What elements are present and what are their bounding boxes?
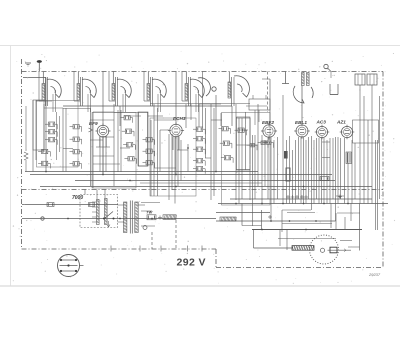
wire v33 [220, 113, 222, 126]
wire e1 [56, 112, 58, 160]
stage2 group box [92, 113, 136, 189]
chassis border bottom-left [22, 248, 217, 250]
wire v11 [113, 104, 115, 186]
wire v17 [153, 104, 155, 196]
junction J5 [215, 171, 217, 173]
wire h34 [337, 212, 360, 214]
wire y248 to coil [254, 247, 293, 249]
wire h29 [282, 209, 311, 211]
junction J19 [175, 186, 177, 188]
wire 261 down [261, 210, 263, 230]
stage4 group box [222, 113, 271, 206]
tuning coil L2 [77, 84, 80, 101]
mains wire upper y204 [22, 204, 118, 206]
capacitor C8 [73, 150, 79, 154]
junction J15 [119, 218, 121, 220]
mains switch [104, 212, 113, 220]
grid drop EBF2 [269, 79, 271, 125]
wire v75 [363, 96, 365, 204]
eye coil bar 2 [307, 73, 310, 86]
HT bus y203 [218, 203, 388, 205]
svg-text:AZ1: AZ1 [336, 120, 346, 125]
wire h14 [154, 119, 176, 121]
wire v60 [316, 138, 318, 199]
coupling wire a4 [143, 72, 145, 102]
capacitor C18 [197, 137, 203, 141]
oscillator coil [228, 82, 231, 98]
tube wire t11 [178, 137, 180, 150]
wire v72 [351, 140, 353, 204]
selector drop 3 [104, 190, 106, 199]
wire v71 [347, 152, 349, 204]
wire v61 [318, 138, 320, 204]
stage2 web h1 [93, 155, 114, 157]
PSU bus y229 [252, 229, 362, 231]
IF can drops [254, 110, 256, 125]
resistor R13 [128, 157, 134, 161]
chassis border bottom-right [216, 267, 383, 269]
grid drop ECH3 [175, 72, 177, 125]
wire h1 [36, 100, 52, 102]
junction J17 [151, 218, 153, 220]
junction J7 [261, 203, 263, 205]
resistor R19 [197, 147, 203, 151]
wire h3 [63, 108, 90, 110]
tube wire t10 [172, 137, 174, 150]
resistor R1 [49, 122, 55, 126]
tuning capacitor fan CV3 [117, 79, 131, 97]
wire h15 [148, 115, 163, 117]
scan speckle noise [13, 51, 395, 284]
wire v59 [313, 140, 315, 204]
PSU wire y205 [141, 202, 160, 204]
bus y171 [25, 171, 258, 173]
selector taps [92, 201, 97, 203]
wire v38 [249, 118, 251, 200]
wire v62 [321, 138, 323, 204]
PT top leads [118, 204, 125, 206]
series R bar 2 [220, 217, 236, 221]
wire h26 [262, 140, 268, 142]
stator wires b1 [52, 94, 54, 112]
wire v7 [92, 112, 94, 188]
wire v37 [245, 112, 247, 170]
svg-text:29237: 29237 [368, 272, 381, 277]
junction J18 [303, 186, 305, 188]
tube base circle [58, 255, 80, 277]
electrolytic blob2 [286, 168, 290, 181]
wire v31 [210, 104, 212, 200]
coupling wire a2 [73, 72, 75, 102]
mains link vert [64, 205, 66, 219]
wire v76 [367, 120, 369, 204]
resistor R25 [238, 128, 244, 132]
border tick k5 [201, 246, 203, 252]
capacitor C24 [224, 156, 230, 160]
IF can 1 [33, 100, 44, 150]
wire v44 [267, 137, 269, 199]
left margin wire [25, 106, 27, 151]
junction J10 [323, 203, 325, 205]
tube wire t3 [45, 78, 47, 172]
svg-text:EBF2: EBF2 [262, 120, 274, 125]
wire v51 [292, 150, 294, 204]
wire v10 [105, 136, 107, 172]
resistor R11 [125, 129, 131, 133]
speaker cone dotted [310, 235, 339, 264]
selector resistor 2 [105, 199, 108, 225]
wire v36 [241, 118, 243, 199]
elbow under EBF2 [311, 204, 313, 211]
wire v16 [150, 120, 152, 196]
output area wire [350, 204, 352, 222]
svg-text:292 V: 292 V [177, 257, 206, 269]
selector drop 2 [96, 190, 98, 200]
bus y186 [40, 186, 372, 188]
base pin line 2 [60, 265, 78, 267]
bus y199 [230, 198, 372, 200]
wire h16 [160, 129, 169, 131]
junction J9 [303, 203, 305, 205]
wire v69 [340, 138, 342, 199]
junction J2 [102, 174, 104, 176]
heater dash-dot bus [22, 189, 384, 191]
output transformer box [353, 120, 379, 143]
PT primary [124, 202, 127, 233]
coupling wire a5 [181, 72, 183, 102]
junction J16 [67, 218, 69, 220]
junction J4 [175, 174, 177, 176]
chassis border left [21, 59, 23, 249]
stage3 group box [150, 118, 196, 196]
tuning coil L3 [112, 84, 115, 101]
speaker voice coil [330, 247, 337, 253]
wire v45 [270, 137, 272, 221]
svg-text:AC3: AC3 [316, 120, 327, 125]
wire v48 [282, 95, 284, 204]
wire h8 [101, 136, 114, 138]
wire h31 [322, 141, 330, 143]
tube AZ1 [341, 126, 352, 137]
wire v65 [329, 138, 331, 204]
PT core [129, 201, 131, 234]
wire v64 [326, 140, 328, 204]
bus y183 [140, 182, 262, 184]
trimmer circle [212, 87, 216, 91]
junction J8 [282, 203, 284, 205]
wire h11 [120, 147, 130, 149]
capacitor C12 [127, 143, 133, 147]
tube wire t1 [102, 137, 104, 175]
tick T8 [158, 217, 162, 219]
wire v34 [235, 104, 237, 200]
zigzag left [24, 152, 28, 160]
junction J3 [129, 180, 131, 182]
capacitor C16 [146, 161, 152, 165]
electrolytic blob [284, 151, 288, 159]
wire v56 [305, 140, 307, 204]
coupling wire a1 [38, 72, 40, 102]
capacitor C6 [73, 125, 79, 129]
wire v50 [289, 136, 291, 204]
junction J6 [235, 203, 237, 205]
PSU dashed drop 1 [151, 232, 153, 249]
resistor R3 [49, 138, 55, 142]
tuning coil L1 [42, 84, 45, 101]
wire h23 [236, 144, 258, 146]
wire h30 [287, 212, 315, 214]
oscillator fan [234, 76, 249, 97]
resistor R23 [223, 141, 229, 145]
wire v81 [330, 204, 332, 229]
wire v18 [157, 108, 159, 196]
wire h9 [114, 112, 138, 114]
wire h2 [44, 107, 63, 109]
wire h32 [322, 157, 330, 159]
wire v12 [117, 110, 119, 172]
border tick k4 [187, 246, 189, 252]
wire v39 [252, 135, 254, 226]
tube wire t2 [175, 137, 177, 175]
svg-text:7000: 7000 [72, 195, 83, 201]
tube wire t8 [99, 136, 101, 147]
junction J22 [261, 229, 263, 231]
shield dashed vertical [267, 72, 269, 113]
tube wire t7 [268, 137, 270, 140]
ground terminal [25, 62, 31, 64]
wire v19 [159, 130, 161, 172]
tuning capacitor fan CV4 [152, 79, 166, 97]
phono terminal circle [324, 64, 328, 68]
wire v66 [332, 138, 334, 199]
tick T5 [304, 196, 308, 198]
wire v67 [335, 137, 337, 221]
capacitor C22 [222, 127, 228, 131]
wire h17 [177, 149, 188, 151]
wire v42 [261, 135, 263, 204]
wire y223 [282, 223, 332, 225]
band switch stub [284, 72, 286, 84]
bus y180 [75, 180, 335, 182]
tuning capacitor fan CV5 [190, 79, 204, 97]
tuning coil L5 [185, 84, 188, 101]
wire v3 [43, 104, 45, 152]
wire h24 [236, 169, 250, 171]
junction J23 [305, 229, 307, 231]
wire h20 [205, 157, 211, 159]
osc verticals [231, 77, 233, 106]
dial lamp [143, 226, 147, 230]
capacitor C10 [124, 116, 130, 120]
junction J1 [45, 171, 47, 173]
spk right vertical [359, 204, 361, 251]
wire h12 [138, 112, 148, 114]
tube wire t6 [231, 106, 233, 126]
tuning capacitor fan CV2 [82, 79, 96, 97]
stator wires b3 [122, 94, 124, 112]
wire v49 [286, 140, 288, 204]
wire v2 [35, 100, 37, 160]
chassis border right [382, 72, 384, 268]
bus y174 [30, 174, 332, 176]
junction J12 [270, 220, 272, 222]
stage3 web h1 [154, 167, 176, 169]
stage2 web h2 [93, 163, 120, 165]
base pin line 3 [60, 270, 77, 272]
wire v35 [238, 118, 240, 204]
voltage selector dotted box [80, 195, 118, 228]
switch arrow [108, 221, 110, 227]
resistor R7 [73, 137, 79, 141]
eye fan arc [293, 86, 304, 103]
wire v26 [190, 104, 192, 120]
IF can 3 [237, 117, 251, 170]
wire h27 [262, 78, 270, 80]
capacitor C14 [146, 138, 152, 142]
bus y221 [216, 220, 336, 222]
wire h25 [240, 129, 248, 131]
stage1 group box [37, 101, 79, 168]
tick T2 [291, 196, 295, 198]
wire v8 [99, 136, 101, 172]
resistor R27 [267, 141, 272, 144]
wire v52 [295, 140, 297, 204]
resistor R15 [146, 149, 152, 153]
selector resistor 1 [97, 200, 100, 225]
tube wire t9 [105, 136, 107, 147]
wire v68 [337, 137, 339, 204]
wire v57 [308, 137, 310, 199]
chassis border step [215, 249, 217, 268]
tube ECH3 [170, 124, 182, 136]
junction J11 [347, 203, 349, 205]
wire v24 [180, 140, 182, 181]
wire h6 [96, 146, 110, 148]
page left edge [10, 46, 12, 287]
PSU dashed drop 2 [175, 220, 177, 249]
grid bus y106 [63, 105, 232, 107]
wire h13 [138, 165, 148, 167]
wire v9 [102, 137, 104, 175]
wire 287 down [286, 230, 288, 251]
wire h18 [163, 171, 165, 173]
wire v21 [171, 134, 173, 190]
wire v20 [168, 134, 170, 200]
top-right L bracket [329, 84, 331, 95]
tube wire t4 [119, 106, 121, 126]
wire v22 [174, 137, 176, 204]
wire 242 down [241, 204, 243, 226]
wire v53 [298, 137, 300, 199]
wire v25 [185, 104, 187, 128]
wire h36 [330, 94, 338, 96]
wire y238 [278, 238, 336, 240]
bus y212 [216, 212, 270, 214]
tick T4 [300, 196, 304, 198]
junction J14 [315, 220, 317, 222]
wire h33 [336, 195, 344, 197]
tube EBF2 [263, 125, 275, 137]
IF can top-right rect [249, 99, 270, 110]
stator wires b2 [87, 94, 89, 112]
resistor R-178 [320, 177, 329, 181]
wire 336 down [335, 213, 337, 230]
top-right drops [359, 85, 361, 96]
wire v13 [120, 110, 122, 172]
wire v40 [254, 135, 256, 199]
stage2 web h3 [90, 139, 103, 141]
wire v58 [311, 136, 313, 204]
border tick k2 [139, 246, 141, 252]
wire h22 [236, 117, 250, 119]
tube EF9 [97, 125, 109, 137]
capacitor C4 [42, 149, 48, 153]
wire h10 [124, 115, 141, 117]
svg-text:EBL1: EBL1 [295, 120, 307, 125]
wire v32 [213, 108, 215, 196]
tuning capacitor fan CV1 [47, 79, 61, 97]
wire v4 [62, 108, 64, 172]
coupling wire a3 [108, 72, 110, 102]
wire v15 [147, 112, 149, 166]
page bottom edge [0, 285, 400, 287]
page top edge [0, 45, 400, 47]
tick T3 [295, 196, 299, 198]
wire h7 [63, 148, 73, 150]
base pin line 1 [60, 259, 77, 261]
wire v27 [187, 144, 189, 172]
wire h28 [246, 105, 267, 107]
wire v46 [273, 140, 275, 204]
wire v43 [264, 140, 266, 186]
wire v55 [303, 137, 305, 204]
wire v5 [65, 108, 67, 172]
selector drop 1 [84, 190, 86, 195]
fuse box T [147, 215, 156, 220]
border tick k3 [160, 246, 162, 252]
wire h19 [199, 103, 221, 105]
wire v73 [354, 143, 356, 199]
wire v30 [205, 108, 207, 158]
capacitor C26 [261, 141, 266, 144]
PT right leads [137, 204, 145, 206]
wire v23 [177, 134, 179, 186]
tuning coil L4 [147, 84, 150, 101]
wire v74 [359, 96, 361, 204]
junction J13 [289, 220, 291, 222]
wire v28 [198, 104, 200, 127]
tube wire t5 [215, 95, 217, 172]
speaker field coil [292, 246, 314, 251]
tube EBL1 [296, 125, 308, 137]
wire v54 [300, 137, 302, 204]
wire 345 down [344, 217, 346, 230]
PT secondary [135, 202, 138, 233]
bus y103 [150, 103, 250, 105]
mains plug [41, 217, 44, 220]
wire v29 [202, 72, 204, 128]
wire v47 [277, 137, 279, 199]
wire y240 box [261, 210, 263, 221]
wire v80 [379, 96, 381, 199]
wire h35 [348, 246, 360, 248]
junction J20 [187, 147, 189, 149]
wire h5 [90, 119, 114, 121]
wire 253 down [253, 230, 255, 249]
resistor R9 [73, 162, 79, 166]
antenna terminal [37, 60, 42, 63]
wire h21 [211, 119, 222, 121]
